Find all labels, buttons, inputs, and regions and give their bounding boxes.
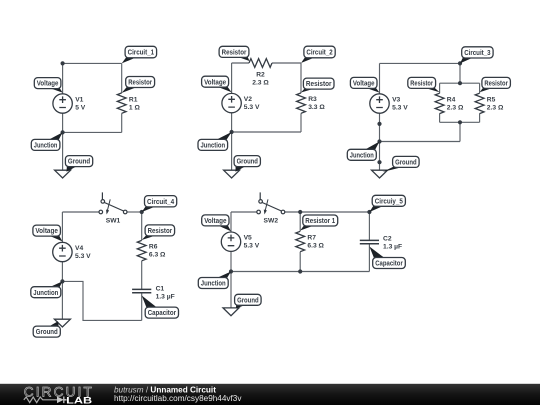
wire (V1 top lead) [62, 63, 64, 94]
label C2 / 1.3 uF [383, 236, 402, 251]
svg-text:R5: R5 [487, 97, 496, 104]
label R3 / 3.3 ohm [308, 96, 325, 111]
svg-text:R2: R2 [256, 71, 265, 78]
CircuitLab logo LAB text [66, 395, 92, 405]
svg-text:V3: V3 [392, 96, 400, 103]
svg-text:5 V: 5 V [75, 104, 86, 111]
wire (R4 top lead) [439, 83, 441, 93]
junction (circuit 2) [230, 130, 234, 134]
label R4 / 2.3 ohm [447, 97, 464, 112]
CircuitLab logo diode symbol [57, 397, 67, 404]
svg-text:1.3 µF: 1.3 µF [156, 294, 175, 301]
svg-text:R6: R6 [149, 243, 158, 250]
callout Ground (circuit 1) [65, 156, 92, 172]
wire (drop from parallel pair) [459, 122, 461, 141]
wire (V5 bottom lead) [230, 251, 232, 271]
label C1 / 1.3 uF [156, 286, 175, 301]
svg-text:Junction: Junction [201, 281, 226, 288]
wire (V5 top lead) [230, 212, 232, 232]
wire (C2 top lead) [368, 212, 370, 240]
svg-text:Resistor: Resistor [484, 81, 508, 88]
svg-text:Voltage: Voltage [204, 218, 226, 225]
wire (circuit 4 top-right) [127, 211, 142, 213]
wire (R4 bottom lead) [439, 114, 441, 123]
wire (R1 top lead) [121, 63, 123, 93]
svg-text:Voltage: Voltage [204, 79, 226, 86]
resistor R4 [435, 93, 444, 113]
callout Resistor (R5) [480, 77, 511, 92]
callout Ground (circuit 2) [234, 156, 260, 172]
svg-text:Junction: Junction [350, 152, 374, 159]
voltage source V3 [370, 94, 389, 113]
callout Resistor (R4) [408, 77, 440, 92]
wire (circuit 5 bottom) [231, 271, 369, 273]
wire (parallel top bar) [440, 82, 480, 84]
svg-text:C1: C1 [156, 286, 165, 293]
wire (circuit 4 top-left) [62, 211, 99, 213]
svg-text:Circuit_2: Circuit_2 [306, 50, 332, 57]
callout Circuit_4 [142, 196, 177, 212]
resistor R5 [475, 93, 484, 113]
svg-text:Ground: Ground [68, 159, 90, 166]
wire (circuit 4 bottom) [62, 281, 141, 320]
svg-text:Voltage: Voltage [353, 81, 375, 88]
CircuitLab logo wordmark CIRCUIT [24, 384, 92, 399]
wire (circuit 3 top) [380, 62, 461, 64]
svg-text:Resistor: Resistor [306, 81, 332, 88]
node (parallel top) [458, 81, 462, 85]
wire (R3 top lead) [300, 63, 302, 93]
callout Resistor 1 (R7) [300, 215, 337, 231]
resistor R2 [249, 59, 272, 68]
junction (circuit 1) [61, 130, 65, 134]
capacitor C1 [132, 289, 151, 292]
wire (V3 bottom lead) [379, 113, 381, 141]
footer title: butrusm / Unnamed Circuit [114, 385, 216, 394]
svg-text:3.3 Ω: 3.3 Ω [308, 104, 325, 111]
wire (parallel bottom bar) [440, 121, 480, 123]
label R7 / 6.3 ohm [307, 234, 324, 249]
callout Capacitor (C2) [369, 247, 405, 269]
callout Circuit_3 [460, 47, 493, 64]
footer bar [0, 384, 540, 405]
svg-text:2.3 Ω: 2.3 Ω [447, 105, 464, 112]
voltage source V4 [53, 242, 72, 261]
wire (R6 top lead) [141, 212, 143, 240]
resistor R1 [117, 93, 126, 113]
callout Resistor (R1) [122, 77, 155, 93]
svg-text:5.3 V: 5.3 V [244, 243, 260, 250]
switch SW1 [99, 192, 127, 214]
callout Capacitor (C1) [142, 296, 179, 319]
wire (ground stem) [62, 132, 64, 170]
wire (V1 bottom lead) [62, 113, 64, 132]
wire (circuit 3 bottom) [380, 141, 461, 143]
callout Voltage (V5) [202, 215, 231, 231]
wire (R2 right lead) [272, 62, 301, 64]
wire (circuit 2 bottom) [232, 131, 301, 133]
wire (ground stem) [61, 281, 63, 319]
svg-text:Ground: Ground [395, 160, 417, 167]
svg-text:Ground: Ground [237, 297, 259, 304]
wire (ground stem) [379, 142, 381, 171]
wire (R3 bottom lead) [300, 113, 302, 132]
ground (circuit 5) [223, 308, 239, 316]
wire (drop to parallel pair) [459, 63, 461, 83]
label V3 / 5.3 V [392, 96, 408, 111]
callout Junction (circuit 1) [31, 132, 62, 150]
wire (circuit 5 top-left) [231, 211, 257, 213]
svg-text:V4: V4 [75, 245, 83, 252]
svg-text:1.3 µF: 1.3 µF [383, 244, 402, 251]
svg-text:6.3 Ω: 6.3 Ω [149, 251, 166, 258]
voltage source V2 [222, 93, 241, 112]
wire (ground stem) [230, 272, 232, 308]
callout Junction (circuit 4) [31, 281, 63, 297]
wire (R1 bottom lead) [121, 113, 123, 132]
ground (circuit 1) [55, 170, 71, 178]
svg-text:5.3 V: 5.3 V [244, 104, 260, 111]
callout Ground (circuit 3) [383, 156, 420, 172]
wire (V2 top lead) [231, 63, 233, 93]
svg-text:6.3 Ω: 6.3 Ω [307, 242, 324, 249]
wire (circuit 1 top) [63, 62, 122, 64]
svg-text:SW1: SW1 [106, 218, 121, 225]
resistor R3 [297, 93, 306, 113]
svg-text:Circuit_1: Circuit_1 [128, 50, 155, 57]
svg-text:Ground: Ground [237, 159, 258, 166]
footer url [114, 394, 242, 403]
voltage source V1 [53, 94, 72, 113]
svg-text:2.3 Ω: 2.3 Ω [487, 105, 504, 112]
callout Voltage (V2) [202, 76, 232, 92]
node (V3 lead join) [377, 122, 381, 126]
svg-text:http://circuitlab.com/csy8e9h4: http://circuitlab.com/csy8e9h44vf3v [114, 394, 242, 403]
svg-text:C2: C2 [383, 236, 392, 243]
CircuitLab logo resistor zigzag [24, 397, 57, 403]
callout Resistor (R6) [142, 225, 175, 240]
svg-text:Resistor: Resistor [148, 228, 173, 235]
svg-text:Circuiy_5: Circuiy_5 [375, 198, 403, 205]
svg-text:Capacitor: Capacitor [148, 310, 177, 317]
wire (R5 bottom lead) [479, 114, 481, 123]
svg-text:R7: R7 [307, 234, 316, 241]
svg-text:5.3 V: 5.3 V [75, 253, 91, 260]
callout Circuit_1 [122, 46, 157, 63]
callout Resistor (R2) [219, 46, 249, 61]
svg-text:LAB: LAB [66, 395, 92, 405]
label V2 / 5.3 V [244, 96, 260, 111]
svg-text:Resistor: Resistor [222, 49, 247, 56]
label V5 / 5.3 V [244, 235, 260, 250]
label R5 / 2.3 ohm [487, 97, 504, 112]
svg-text:V1: V1 [75, 96, 83, 103]
svg-text:Resistor: Resistor [410, 81, 433, 88]
node (ground stem join) [377, 160, 381, 164]
label R2 / 2.3 ohm [252, 71, 269, 86]
svg-text:Resistor 1: Resistor 1 [305, 218, 335, 225]
switch SW2 [257, 192, 285, 214]
wire (circuit 5 top-right) [285, 211, 370, 213]
node (parallel bottom) [458, 120, 462, 124]
node (circuit 1 top-left) [61, 61, 65, 65]
ground (circuit 3) [372, 170, 388, 178]
resistor R6 [137, 240, 146, 260]
label R6 / 6.3 ohm [149, 243, 166, 258]
svg-text:Resistor: Resistor [128, 80, 152, 87]
svg-text:butrusm / Unnamed Circuit: butrusm / Unnamed Circuit [114, 385, 216, 394]
junction (circuit 4) [60, 279, 64, 283]
wire (R6 to C1) [141, 261, 143, 289]
svg-text:2.3 Ω: 2.3 Ω [252, 79, 269, 86]
callout Junction (circuit 2) [198, 132, 232, 150]
junction (circuit 3) [377, 139, 381, 143]
svg-text:Voltage: Voltage [35, 228, 58, 235]
wire (circuit 1 bottom) [63, 131, 122, 133]
node (R7 top) [298, 210, 302, 214]
wire (ground stem) [231, 132, 233, 170]
wire (V3 top lead) [379, 63, 381, 93]
callout Voltage (V1) [34, 78, 62, 93]
capacitor C2 [360, 240, 379, 243]
callout Resistor (R3) [301, 78, 334, 92]
svg-text:SW2: SW2 [264, 218, 279, 225]
svg-text:V2: V2 [244, 96, 252, 103]
wire (C2 bottom lead) [368, 244, 370, 272]
wire (R2 left lead) [232, 62, 249, 64]
node (C2 top) [367, 210, 371, 214]
node (circuit 4 top-right) [140, 210, 144, 214]
resistor R7 [296, 231, 305, 251]
svg-text:Circuit_4: Circuit_4 [147, 199, 174, 206]
svg-text:5.3 V: 5.3 V [392, 104, 408, 111]
callout Voltage (V3) [350, 77, 379, 92]
svg-text:R1: R1 [129, 96, 138, 103]
svg-text:Ground: Ground [36, 329, 58, 336]
wire (R5 top lead) [479, 83, 481, 93]
wire (V2 bottom lead) [231, 113, 233, 132]
junction (circuit 5) [229, 269, 233, 273]
ground (circuit 2) [224, 170, 240, 178]
wire (C1 bottom lead) [141, 293, 143, 321]
label V1 / 5 V [75, 96, 86, 111]
wire (V4 bottom lead) [61, 262, 63, 282]
ground (circuit 4) [54, 319, 70, 327]
svg-text:Junction: Junction [201, 143, 226, 150]
svg-text:Circuit_3: Circuit_3 [464, 50, 490, 57]
callout Voltage (V4) [33, 225, 63, 241]
callout Circuit_2 [301, 46, 335, 63]
node (circuit 3 top) [458, 61, 462, 65]
node (R7 bottom) [298, 269, 302, 273]
label SW1 [106, 218, 121, 225]
label R1 / 1 ohm [129, 96, 141, 111]
wire (R7 top lead) [299, 212, 301, 231]
callout Circuiy_5 [369, 195, 405, 212]
svg-text:Capacitor: Capacitor [375, 261, 403, 268]
callout Ground (circuit 5) [235, 294, 262, 308]
wire (R7 bottom lead) [299, 252, 301, 272]
label V4 / 5.3 V [75, 245, 91, 260]
callout Junction (circuit 5) [198, 272, 231, 289]
callout Junction (circuit 3) [347, 142, 379, 161]
wire (V4 top lead) [61, 212, 63, 242]
voltage source V5 [221, 232, 240, 251]
svg-text:V5: V5 [244, 235, 252, 242]
svg-text:R4: R4 [447, 97, 456, 104]
callout Ground (circuit 4) [33, 321, 60, 337]
svg-text:Voltage: Voltage [37, 81, 59, 88]
svg-text:Junction: Junction [33, 290, 58, 297]
svg-text:R3: R3 [308, 96, 317, 103]
svg-text:Junction: Junction [34, 143, 58, 150]
svg-text:1 Ω: 1 Ω [129, 104, 141, 111]
label SW2 [264, 218, 279, 225]
